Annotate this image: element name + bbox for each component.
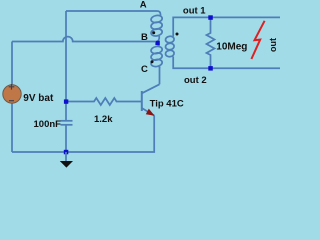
svg-text:Tip 41C: Tip 41C — [150, 98, 184, 109]
svg-text:out 2: out 2 — [184, 75, 207, 86]
svg-text:B: B — [141, 32, 148, 43]
svg-text:out 1: out 1 — [183, 6, 206, 17]
svg-text:100nF: 100nF — [34, 119, 62, 130]
svg-text:C: C — [141, 64, 148, 75]
svg-text:A: A — [140, 0, 147, 11]
svg-text:1.2k: 1.2k — [94, 114, 113, 125]
svg-text:9V bat: 9V bat — [23, 93, 54, 104]
svg-text:10Meg: 10Meg — [216, 42, 247, 53]
svg-text:out: out — [268, 38, 278, 52]
